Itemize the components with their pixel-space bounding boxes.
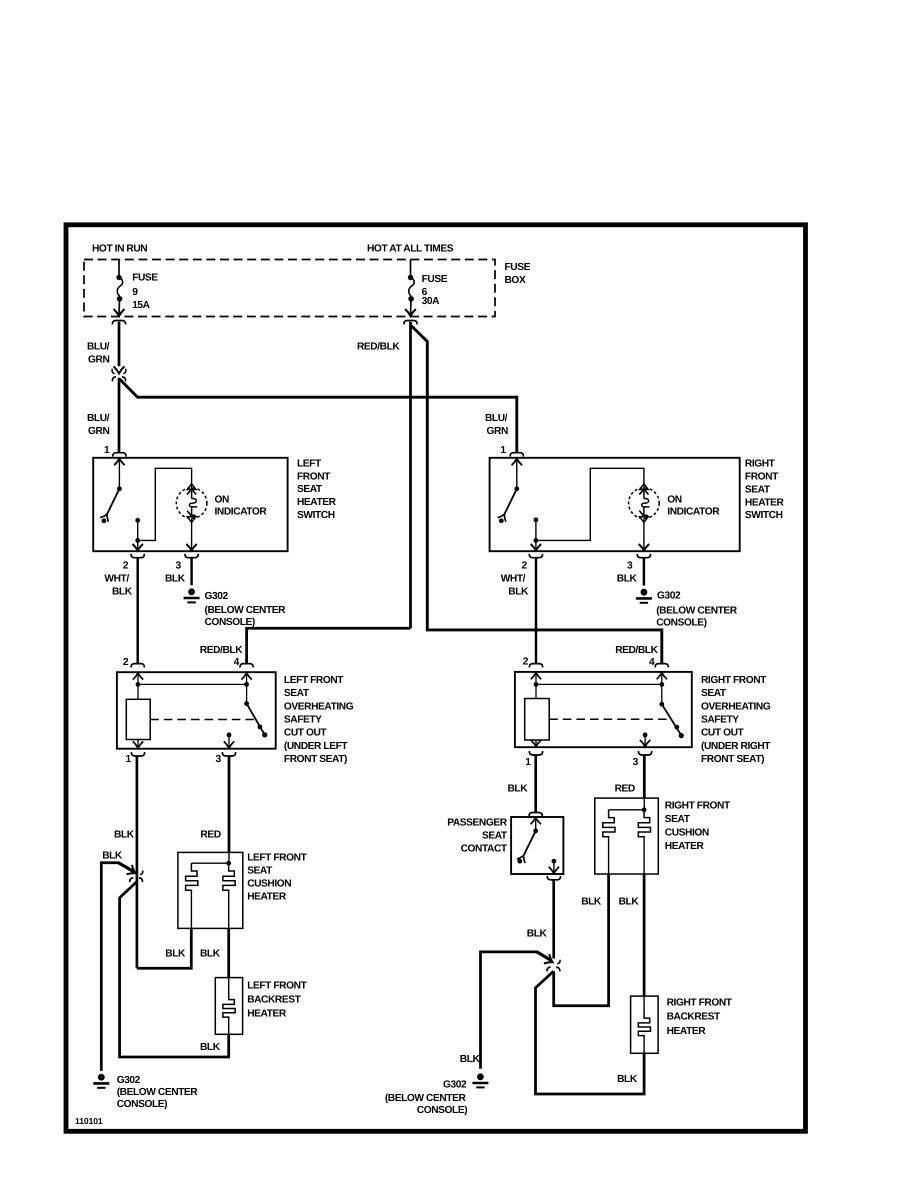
svg-text:BLK: BLK <box>617 574 638 585</box>
svg-text:FUSE: FUSE <box>505 262 531 273</box>
feed stub right cushion heater <box>643 798 645 810</box>
svg-text:BLK: BLK <box>619 896 640 907</box>
bridge wire right cushion heater <box>609 809 645 811</box>
svg-text:BLK: BLK <box>112 587 133 598</box>
resistor feed left cutout <box>137 684 139 699</box>
svg-text:FRONT: FRONT <box>745 472 779 483</box>
cutout switch pivot left <box>244 701 249 706</box>
connector at fuse 6 output <box>404 321 417 325</box>
svg-text:RED: RED <box>615 784 635 795</box>
pin 2 contact stub right <box>535 520 537 541</box>
connector switch pin 3 right <box>637 554 650 558</box>
wire to indicator left <box>138 468 192 540</box>
cutout switch pivot right <box>659 702 664 707</box>
pin 2 junction dot left cutout <box>136 682 141 687</box>
wire RED/BLK to left cutout pin 4 <box>247 628 411 663</box>
pin 3 arrow right cutout <box>640 740 650 747</box>
heating element left cushion A <box>186 863 198 891</box>
cutout switch feed right <box>661 684 663 704</box>
connector switch pin 2 right <box>529 554 542 558</box>
svg-text:WHT/: WHT/ <box>501 574 526 585</box>
svg-text:PASSENGER: PASSENGER <box>447 818 507 829</box>
wire BLU/GRN from fuse 9 <box>118 322 121 366</box>
svg-text:CUT OUT: CUT OUT <box>701 728 745 739</box>
svg-text:LEFT: LEFT <box>297 458 322 469</box>
heating element right cushion B <box>638 810 650 838</box>
switch pivot dot right <box>514 486 519 491</box>
wire fuse 9 feed <box>118 260 120 276</box>
cutout blade end dot right <box>679 733 684 738</box>
diagram border frame <box>66 225 806 1132</box>
pin 4 junction dot left cutout <box>244 682 249 687</box>
switch blade right <box>498 489 517 522</box>
thermal resistor right cutout <box>525 699 550 741</box>
svg-text:G302: G302 <box>657 591 681 602</box>
svg-text:BLK: BLK <box>114 829 135 840</box>
svg-text:BLU/: BLU/ <box>87 413 110 424</box>
svg-text:30A: 30A <box>422 296 440 307</box>
passenger contact out arrow <box>549 867 559 874</box>
resistor out left cutout <box>137 740 139 748</box>
wire BLK cushion return right <box>554 874 609 1006</box>
svg-text:OVERHEATING: OVERHEATING <box>284 701 354 712</box>
connector switch pin 2 left <box>131 554 144 558</box>
svg-text:1: 1 <box>126 754 132 765</box>
ON indicator lamp left <box>176 484 207 523</box>
svg-text:G302: G302 <box>205 591 229 602</box>
passenger contact blade <box>517 831 536 863</box>
svg-text:4: 4 <box>234 657 240 668</box>
pin 3 stub left cutout <box>228 735 230 748</box>
element exit left backrest <box>228 1019 230 1035</box>
passenger contact pin arrow <box>531 818 541 825</box>
pin 4 junction dot right cutout <box>659 682 664 687</box>
wire BLK right cushion to backrest <box>643 874 646 996</box>
heating element right backrest <box>638 1011 650 1037</box>
wire BLK from passenger contact <box>552 880 555 958</box>
svg-text:3: 3 <box>176 561 182 572</box>
pin 3 stub right cutout <box>644 735 646 746</box>
wire fuse 6 feed <box>410 260 412 276</box>
svg-text:3: 3 <box>627 561 633 572</box>
connector switch pin 1 left <box>113 453 126 457</box>
cutout blade mid dot right <box>674 725 679 730</box>
pin 2 junction dot right cutout <box>534 682 539 687</box>
feed stub left cushion heater <box>228 852 230 863</box>
connector cutout pin 4 left <box>240 664 253 668</box>
svg-text:G302: G302 <box>443 1079 467 1090</box>
heating element left cushion B <box>223 863 235 891</box>
pin 2 exit stub right switch <box>535 540 537 549</box>
svg-text:RED/BLK: RED/BLK <box>615 645 658 656</box>
svg-text:RIGHT: RIGHT <box>745 459 776 470</box>
element B exit left cushion <box>228 892 230 929</box>
pin 2 exit stub left switch <box>137 540 139 549</box>
pin 1 stub right switch <box>516 460 518 488</box>
svg-text:HEATER: HEATER <box>745 497 785 508</box>
ON indicator lamp right <box>629 484 660 523</box>
cutout blade mid dot left <box>258 725 263 730</box>
svg-text:2: 2 <box>123 561 129 572</box>
svg-text:SEAT: SEAT <box>297 484 323 495</box>
svg-text:ON: ON <box>215 494 230 505</box>
pin 2 arrow left cutout <box>133 673 143 680</box>
pin 4 arrow right cutout <box>657 673 667 680</box>
fuse box dashed outline <box>84 260 495 317</box>
wire BLK right cutout pin1 to contact <box>534 756 537 813</box>
wire BLK left cushion to backrest <box>227 928 230 977</box>
element A exit left cushion <box>190 892 192 929</box>
ground G302 right switch <box>636 589 652 603</box>
connector cutout pin 2 right <box>529 664 542 668</box>
thermal resistor left cutout <box>126 699 150 739</box>
svg-text:LEFT FRONT: LEFT FRONT <box>284 675 344 686</box>
svg-text:(UNDER LEFT: (UNDER LEFT <box>284 741 348 752</box>
pin 4 stub left cutout <box>246 674 248 684</box>
wire RED to left cushion heater <box>228 757 231 853</box>
splice connector S right <box>544 954 560 971</box>
pin 1 arrow left cutout <box>133 741 143 748</box>
svg-text:BLU/: BLU/ <box>87 342 110 353</box>
thick splice lead right <box>537 952 551 961</box>
connector passenger contact bottom <box>547 876 560 880</box>
switch pivot dot left <box>117 486 122 491</box>
wire BLU/GRN branch to right <box>120 379 517 452</box>
element B exit right cushion <box>643 838 645 874</box>
wire BLK backrest return left <box>120 882 229 1057</box>
svg-text:BOX: BOX <box>505 275 526 286</box>
svg-text:ON: ON <box>667 494 682 505</box>
resistor feed right cutout <box>535 684 537 698</box>
svg-text:SAFETY: SAFETY <box>284 715 322 726</box>
pin 2 stub left cutout <box>137 674 139 684</box>
svg-text:CONTACT: CONTACT <box>461 844 508 855</box>
svg-text:4: 4 <box>649 657 655 668</box>
svg-text:BLK: BLK <box>508 784 529 795</box>
wire BLU/GRN to switch pin 1 <box>118 378 121 453</box>
svg-text:BACKREST: BACKREST <box>247 994 301 1005</box>
passenger contact stub <box>535 819 537 831</box>
svg-text:1: 1 <box>104 445 110 456</box>
svg-text:(BELOW CENTER: (BELOW CENTER <box>205 605 287 616</box>
passenger contact out stub <box>553 861 555 872</box>
pin 1 stub left switch <box>118 460 120 488</box>
pin 3 stub right switch <box>643 518 645 550</box>
connector at fuse 9 output <box>112 321 125 325</box>
wire BLK backrest return right <box>536 971 645 1094</box>
svg-text:BLU/: BLU/ <box>485 413 508 424</box>
ground G302 bottom right <box>472 1073 488 1087</box>
right front seat cushion heater box <box>595 798 659 874</box>
svg-text:CONSOLE): CONSOLE) <box>117 1099 167 1110</box>
pin 3 arrow left switch <box>186 544 196 551</box>
svg-text:3: 3 <box>216 754 222 765</box>
pin 3 contact dot right cutout <box>643 733 648 738</box>
junction dot right cushion heater <box>642 807 647 812</box>
svg-text:RIGHT FRONT: RIGHT FRONT <box>667 998 733 1009</box>
connector cutout pin 4 right <box>655 664 668 668</box>
pin 2 arrow right cutout <box>531 673 541 680</box>
element exit right backrest <box>643 1037 645 1053</box>
svg-text:CONSOLE): CONSOLE) <box>205 617 255 628</box>
svg-text:HEATER: HEATER <box>665 841 705 852</box>
svg-text:LEFT FRONT: LEFT FRONT <box>247 853 307 864</box>
svg-text:INDICATOR: INDICATOR <box>215 506 268 517</box>
svg-text:BLK: BLK <box>527 928 548 939</box>
pin 2 arrow left switch <box>133 544 143 551</box>
svg-text:HEATER: HEATER <box>247 892 287 903</box>
pin 2 contact dot left <box>135 518 140 523</box>
svg-text:INDICATOR: INDICATOR <box>667 506 720 517</box>
wire WHT/BLK right <box>535 558 537 663</box>
svg-text:SEAT: SEAT <box>745 484 771 495</box>
switch blade end dot left <box>102 518 107 523</box>
wire BLK cushion return left <box>137 928 191 968</box>
wire RED/BLK branch to right cutout <box>411 326 662 664</box>
pin 2 junction dot right <box>534 538 539 543</box>
dashed actuator link left cutout <box>150 719 256 721</box>
svg-text:CONSOLE): CONSOLE) <box>417 1105 467 1116</box>
svg-text:LEFT FRONT: LEFT FRONT <box>247 981 307 992</box>
left front backrest heater box <box>215 978 242 1035</box>
svg-text:2: 2 <box>522 561 528 572</box>
connector cutout pin 3 right <box>638 751 651 755</box>
svg-text:SEAT: SEAT <box>701 688 727 699</box>
svg-text:HEATER: HEATER <box>247 1008 287 1019</box>
svg-text:SAFETY: SAFETY <box>701 715 739 726</box>
wire BLK to ground right <box>481 952 538 1069</box>
connector cutout pin 1 left <box>131 752 144 756</box>
wire BLK to ground left <box>101 863 119 1071</box>
svg-text:110101: 110101 <box>75 1116 103 1126</box>
pin 4 stub right cutout <box>661 674 663 684</box>
svg-text:BLK: BLK <box>460 1054 481 1065</box>
svg-text:SWITCH: SWITCH <box>297 510 335 521</box>
svg-text:SWITCH: SWITCH <box>745 510 783 521</box>
svg-text:3: 3 <box>633 757 639 768</box>
svg-text:1: 1 <box>525 757 531 768</box>
left front seat heater switch box <box>93 458 287 551</box>
switch blade left <box>100 489 119 522</box>
svg-text:9: 9 <box>132 287 138 298</box>
svg-text:SEAT: SEAT <box>284 688 310 699</box>
svg-text:GRN: GRN <box>88 355 109 366</box>
ground G302 left switch <box>184 588 200 602</box>
bridge wire right cutout <box>536 683 662 685</box>
cutout switch blade right <box>662 704 682 735</box>
thick splice lead left <box>119 863 134 872</box>
svg-text:SEAT: SEAT <box>665 814 691 825</box>
svg-text:RED/BLK: RED/BLK <box>357 341 400 352</box>
svg-text:15A: 15A <box>132 300 150 311</box>
svg-text:GRN: GRN <box>487 426 508 437</box>
fuse 6 30A symbol <box>405 275 416 316</box>
resistor out right cutout <box>535 740 537 746</box>
wire switch pin 3 to ground right <box>643 558 645 585</box>
svg-text:BLK: BLK <box>165 949 186 960</box>
pin 3 arrow left cutout <box>224 741 234 748</box>
svg-text:BLK: BLK <box>508 587 529 598</box>
pin 2 contact dot right <box>534 517 539 522</box>
right front seat overheating safety cut out box <box>515 672 692 747</box>
svg-text:(UNDER RIGHT: (UNDER RIGHT <box>701 741 771 752</box>
dashed actuator link right cutout <box>549 718 668 720</box>
connector passenger seat contact top <box>529 813 542 817</box>
svg-text:BLK: BLK <box>200 949 221 960</box>
wire switch pin 3 to ground left <box>190 558 192 585</box>
svg-text:GRN: GRN <box>88 426 109 437</box>
passenger contact fixed dot <box>552 859 557 864</box>
svg-text:BLK: BLK <box>200 1042 221 1053</box>
passenger contact pivot dot <box>533 828 538 833</box>
svg-text:(BELOW CENTER: (BELOW CENTER <box>656 606 738 617</box>
pin 4 arrow left cutout <box>241 673 251 680</box>
bridge wire left cushion heater <box>191 862 228 864</box>
svg-text:RED: RED <box>200 829 220 840</box>
svg-text:BLK: BLK <box>581 896 602 907</box>
passenger seat contact box <box>511 817 563 874</box>
cutout blade end dot left <box>262 732 267 737</box>
feed stub right backrest <box>643 996 645 1011</box>
svg-text:RIGHT FRONT: RIGHT FRONT <box>701 675 767 686</box>
svg-text:1: 1 <box>500 445 506 456</box>
svg-text:WHT/: WHT/ <box>104 574 129 585</box>
pin 1 arrow left switch <box>114 459 124 466</box>
svg-text:FRONT: FRONT <box>297 471 331 482</box>
connector switch pin 1 right <box>510 453 523 457</box>
svg-text:FRONT SEAT): FRONT SEAT) <box>284 754 347 765</box>
cutout switch blade left <box>247 704 265 735</box>
svg-text:FRONT SEAT): FRONT SEAT) <box>701 754 764 765</box>
svg-text:OVERHEATING: OVERHEATING <box>701 701 771 712</box>
pin 3 stub left switch <box>191 518 193 550</box>
heating element left backrest <box>223 993 235 1019</box>
pin 3 contact dot left cutout <box>227 733 232 738</box>
connector cutout pin 2 left <box>131 664 144 668</box>
wire to indicator right <box>536 468 644 540</box>
svg-text:2: 2 <box>123 657 129 668</box>
svg-text:(BELOW CENTER: (BELOW CENTER <box>117 1087 199 1098</box>
svg-text:CUSHION: CUSHION <box>247 879 291 890</box>
svg-text:BLK: BLK <box>102 850 123 861</box>
svg-text:RIGHT FRONT: RIGHT FRONT <box>665 801 731 812</box>
pin 2 contact stub left <box>137 520 139 540</box>
svg-text:2: 2 <box>523 657 529 668</box>
wire RED to right cushion heater <box>643 756 646 799</box>
svg-text:BLK: BLK <box>165 574 186 585</box>
connector switch pin 3 left <box>185 554 198 558</box>
pin 2 arrow right switch <box>531 544 541 551</box>
svg-text:FUSE: FUSE <box>132 272 158 283</box>
pin 2 stub right cutout <box>535 674 537 684</box>
svg-text:BLK: BLK <box>617 1074 638 1085</box>
wire BLK from left cutout pin 1 <box>136 757 139 969</box>
left front seat cushion heater box <box>178 852 243 928</box>
svg-text:RED/BLK: RED/BLK <box>200 645 243 656</box>
connector cutout pin 1 right <box>529 751 542 755</box>
junction dot left cushion heater <box>226 861 231 866</box>
element A exit right cushion <box>608 838 610 874</box>
svg-text:HEATER: HEATER <box>297 497 337 508</box>
svg-text:CUSHION: CUSHION <box>665 828 709 839</box>
feed stub left backrest <box>228 978 230 993</box>
svg-text:HEATER: HEATER <box>667 1026 707 1037</box>
connector cutout pin 3 left <box>222 752 235 756</box>
left front seat overheating safety cut out box <box>117 672 276 749</box>
svg-text:SEAT: SEAT <box>482 831 508 842</box>
pin 1 arrow right cutout <box>531 740 541 747</box>
passenger contact blade end dot <box>517 859 522 864</box>
ground G302 bottom left <box>93 1074 109 1088</box>
heating element right cushion A <box>603 810 615 838</box>
fuse 9 15A symbol <box>114 275 125 316</box>
svg-text:CUT OUT: CUT OUT <box>284 728 328 739</box>
svg-text:G302: G302 <box>117 1075 141 1086</box>
wire RED/BLK main from fuse 6 <box>409 322 412 629</box>
svg-text:FUSE: FUSE <box>422 274 448 285</box>
switch blade end dot right <box>499 518 504 523</box>
svg-text:CONSOLE): CONSOLE) <box>656 617 706 628</box>
right front seat heater switch box <box>490 458 740 551</box>
wire WHT/BLK left <box>136 558 138 663</box>
pin 1 arrow right switch <box>512 459 522 466</box>
pin 2 junction dot left <box>135 538 140 543</box>
svg-text:SEAT: SEAT <box>247 866 273 877</box>
pin 3 arrow right switch <box>639 544 649 551</box>
svg-text:BACKREST: BACKREST <box>667 1012 721 1023</box>
right front backrest heater box <box>631 996 659 1053</box>
splice connector S left <box>127 865 143 882</box>
svg-text:(BELOW CENTER: (BELOW CENTER <box>385 1093 467 1104</box>
svg-text:HOT AT ALL TIMES: HOT AT ALL TIMES <box>367 244 454 255</box>
cutout switch feed left <box>246 684 248 703</box>
bridge wire left cutout <box>138 683 247 685</box>
inline connector C on BLU/GRN <box>112 366 126 381</box>
svg-text:HOT IN RUN: HOT IN RUN <box>92 244 147 255</box>
